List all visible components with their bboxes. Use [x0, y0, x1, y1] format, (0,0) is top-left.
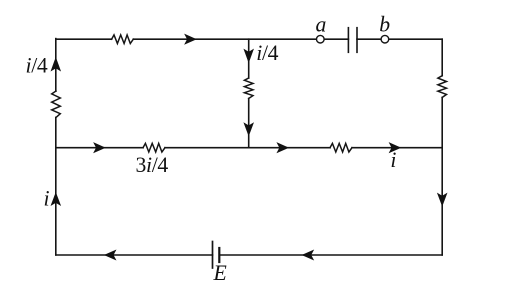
svg-text:i: i: [390, 148, 396, 172]
svg-text:b: b: [379, 12, 390, 36]
svg-text:i/4: i/4: [26, 54, 48, 78]
svg-text:E: E: [213, 261, 227, 285]
svg-text:3i/4: 3i/4: [136, 153, 169, 177]
svg-text:i/4: i/4: [256, 41, 278, 65]
svg-text:a: a: [316, 12, 327, 36]
svg-text:i: i: [44, 187, 50, 211]
